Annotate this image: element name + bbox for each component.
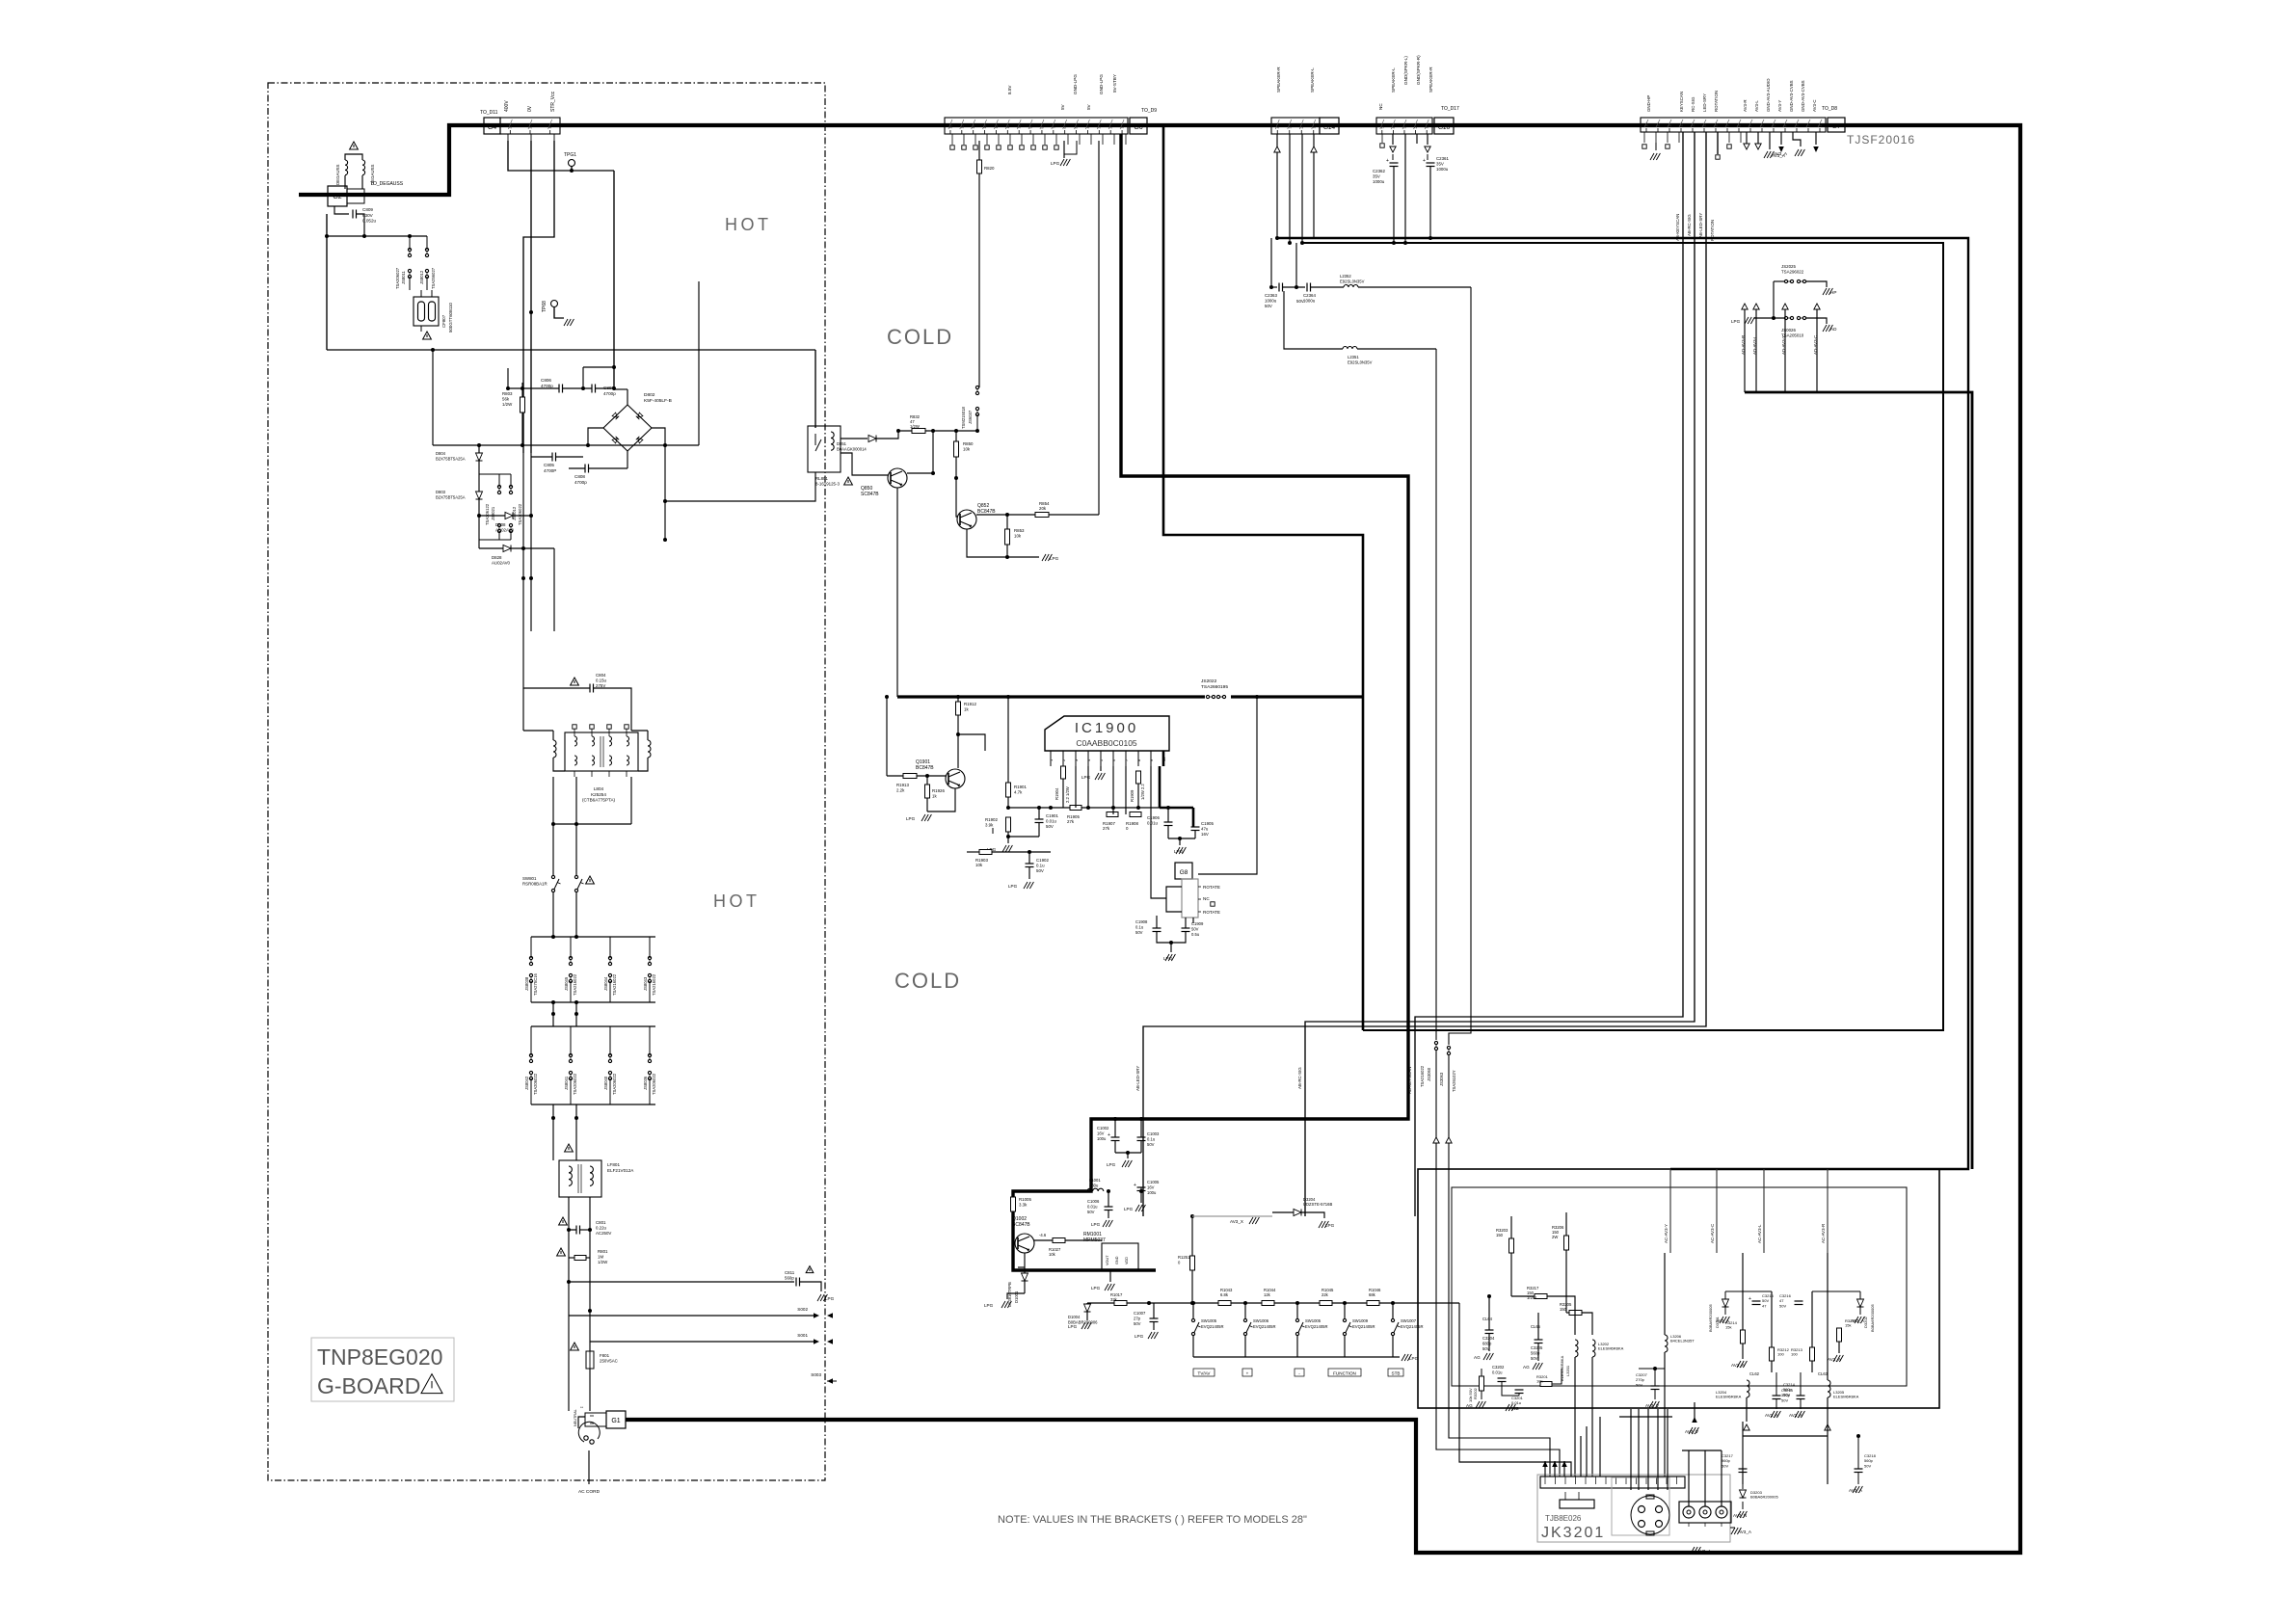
diode D3204 [1294, 1210, 1301, 1216]
svg-text:G4: G4 [488, 124, 496, 131]
svg-text:3: 3 [509, 127, 513, 129]
wire [1125, 766, 1127, 814]
svg-text:SW801: SW801 [522, 876, 537, 881]
svg-text:VOUT: VOUT [1106, 1255, 1109, 1265]
svg-text:C2361: C2361 [1436, 156, 1449, 161]
svg-text:AV3_A: AV3_A [1731, 1363, 1746, 1368]
svg-text:IC1900: IC1900 [1075, 720, 1138, 736]
IC1900 pins [1050, 751, 1052, 766]
svg-text:B0BA6R200005: B0BA6R200005 [1750, 1495, 1778, 1500]
svg-text:G6: G6 [1134, 124, 1142, 131]
wire [1827, 1397, 1829, 1422]
diode D3202 [1857, 1299, 1864, 1307]
wire Q1901 emitter [927, 788, 955, 811]
svg-text:150: 150 [1496, 1233, 1504, 1237]
svg-text:500GTT60B110: 500GTT60B110 [448, 303, 453, 333]
svg-text:LPG: LPG [906, 816, 916, 821]
svg-text:0.01u: 0.01u [1492, 1370, 1503, 1374]
diode D1004 [1084, 1304, 1091, 1312]
svg-text:JK3201: JK3201 [1541, 1525, 1605, 1541]
svg-text:47u: 47u [1201, 827, 1209, 832]
svg-text:VDD: VDD [1125, 1257, 1129, 1264]
svg-text:JS8012: JS8012 [419, 270, 424, 284]
wire AV3 signal bus [1745, 392, 1972, 1169]
svg-text:10k 50V: 10k 50V [1468, 1388, 1473, 1402]
svg-text:C806: C806 [541, 378, 551, 383]
wire [1565, 1250, 1567, 1313]
wire STR_Vcc feed [523, 141, 554, 453]
resistor R803 [521, 397, 525, 412]
svg-text:560p: 560p [785, 1276, 794, 1281]
svg-text:LPG: LPG [1731, 319, 1741, 324]
wire [664, 445, 666, 540]
wire AV3-X line [1192, 1215, 1272, 1217]
svg-text:LPG: LPG [1124, 1207, 1134, 1211]
switch SW1007 [1391, 1318, 1394, 1321]
line filter LF801 [559, 1160, 601, 1197]
svg-text:AV3_A: AV3_A [1774, 151, 1788, 156]
svg-text:AG: AG [1523, 1365, 1530, 1370]
svg-text:AU02AV0: AU02AV0 [492, 561, 511, 566]
jumper JS8012 [425, 248, 428, 251]
svg-text:27k: 27k [1067, 819, 1075, 824]
capacitor C806 [558, 385, 560, 393]
svg-text:EVQ21405R: EVQ21405R [1305, 1324, 1328, 1329]
svg-text:HOT: HOT [725, 215, 772, 234]
svg-text:TNP8EG020: TNP8EG020 [317, 1344, 442, 1370]
svg-text:AB-RC-SIG: AB-RC-SIG [1687, 214, 1692, 236]
svg-text:TSA205010: TSA205010 [1781, 333, 1804, 338]
diode D1001 LED [1022, 1273, 1028, 1281]
switch SW1005 [1191, 1318, 1194, 1321]
svg-text:50V: 50V [1783, 1392, 1790, 1397]
connector G7 [1641, 118, 1826, 132]
inductor L3206 [1665, 1335, 1668, 1352]
svg-text:G14: G14 [1323, 124, 1336, 131]
degauss coil 2 [362, 160, 365, 175]
wire pin10 thick [1159, 766, 1161, 808]
wire degauss return [326, 214, 328, 350]
wire [552, 892, 554, 937]
svg-text:0.1u: 0.1u [1036, 864, 1045, 868]
svg-text:EVQ21405R: EVQ21405R [1352, 1324, 1375, 1329]
svg-text:1000u: 1000u [1265, 299, 1277, 304]
svg-text:BC847B: BC847B [977, 509, 996, 515]
svg-text:15: 15 [1657, 123, 1661, 127]
svg-text:2W: 2W [1552, 1235, 1558, 1239]
svg-text:R1926: R1926 [932, 788, 945, 793]
svg-text:TSA216022: TSA216022 [612, 973, 617, 996]
svg-text:33k: 33k [1110, 1297, 1118, 1302]
svg-text:GND-LPG: GND-LPG [1099, 74, 1104, 94]
svg-text:L1001: L1001 [1089, 1178, 1101, 1183]
capacitor C1005 [1137, 1186, 1146, 1188]
svg-text:AC250V: AC250V [596, 1231, 611, 1236]
svg-text:C1901: C1901 [1046, 813, 1058, 818]
svg-text:C804: C804 [596, 673, 606, 678]
svg-text:4700p: 4700p [603, 391, 616, 396]
svg-text:JS8011: JS8011 [401, 270, 406, 284]
wire [522, 688, 524, 731]
JK3201 pin strip [1540, 1477, 1685, 1488]
svg-text:MPM5037: MPM5037 [1083, 1237, 1106, 1243]
wire remote line to switches [1149, 1302, 1192, 1304]
svg-text:AV3-R: AV3-R [1743, 99, 1748, 112]
wire [432, 350, 434, 445]
svg-text:ELESM6R8KA: ELESM6R8KA [1833, 1395, 1859, 1399]
wire [957, 715, 959, 768]
wire [478, 445, 480, 453]
svg-text:ROTATION: ROTATION [1710, 220, 1715, 241]
svg-text:AC-AV3-R: AC-AV3-R [1821, 1224, 1826, 1243]
fuse F801 [586, 1351, 594, 1369]
svg-text:16V: 16V [1201, 832, 1209, 837]
wire [589, 1197, 591, 1230]
wire [1049, 514, 1099, 516]
resistor R3206 [1564, 1236, 1569, 1250]
wire [1192, 918, 1194, 923]
svg-text:50V: 50V [1046, 824, 1054, 829]
wire [553, 823, 631, 825]
switch SW1006 [1243, 1318, 1246, 1321]
svg-text:HP: HP [1830, 290, 1836, 295]
resistor R3212 [1770, 1347, 1775, 1361]
svg-text:50V: 50V [1296, 299, 1304, 304]
svg-text:+: + [1386, 158, 1389, 164]
svg-text:LPG: LPG [1409, 1356, 1419, 1361]
svg-text:TJSF20016: TJSF20016 [1847, 133, 1915, 146]
diode D808 [505, 513, 513, 519]
svg-text:14: 14 [972, 125, 975, 129]
svg-text:4700P: 4700P [544, 468, 556, 473]
jumper JS8011 [408, 248, 411, 251]
G14 pin drops [1276, 134, 1278, 238]
inductor L3201 [1575, 1340, 1578, 1357]
wire [1827, 1422, 1829, 1484]
zener D803 [476, 492, 483, 499]
wire [568, 1316, 570, 1411]
warning triangle R801 [557, 1248, 566, 1256]
svg-text:3: 3 [1796, 125, 1800, 127]
wire [1075, 766, 1077, 808]
svg-text:4.7k: 4.7k [1014, 790, 1023, 795]
svg-text:B4CEL3N35T: B4CEL3N35T [1670, 1339, 1695, 1344]
svg-text:JS0026: JS0026 [1781, 328, 1796, 333]
capacitor C3215 [1752, 1300, 1761, 1302]
G16 pin drops [1381, 134, 1383, 143]
svg-text:RL801: RL801 [815, 476, 828, 481]
wire [1827, 1253, 1829, 1380]
resistor R1046 [1367, 1301, 1379, 1306]
wire [1289, 134, 1291, 243]
svg-text:R1909: R1909 [1130, 789, 1135, 802]
svg-text:2: 2 [529, 127, 533, 129]
svg-text:R1912: R1912 [964, 702, 976, 706]
svg-text:JS8043: JS8043 [643, 976, 648, 991]
svg-text:AV3_A: AV3_A [1697, 1549, 1712, 1554]
wire [1007, 556, 1039, 558]
wire jumper row 2 bottom [531, 1104, 655, 1105]
wire [575, 824, 577, 875]
svg-text:50V: 50V [1135, 930, 1143, 935]
wire [955, 457, 957, 478]
svg-text:RSR08BA1R: RSR08BA1R [522, 882, 547, 887]
svg-text:R1902: R1902 [985, 817, 998, 822]
svg-text:4700p: 4700p [541, 384, 553, 388]
wire Q850 emitter rail [896, 488, 898, 697]
svg-text:C1003: C1003 [1147, 1131, 1160, 1136]
svg-text:R820: R820 [984, 166, 995, 171]
wire [1857, 1436, 1859, 1469]
warning triangle degauss [350, 142, 359, 149]
svg-text:10k: 10k [1536, 1379, 1542, 1384]
degauss coil 1 [345, 160, 348, 175]
transistor Q1002 [1015, 1234, 1034, 1253]
svg-text:AV3_X: AV3_X [1230, 1219, 1243, 1224]
svg-text:JS6037: JS6037 [968, 410, 973, 424]
svg-text:50V: 50V [1781, 1397, 1788, 1402]
wire [992, 851, 1022, 853]
resistor R1908 [1130, 812, 1141, 817]
svg-text:B0AAGK000014: B0AAGK000014 [837, 446, 867, 451]
wire [1112, 766, 1114, 814]
svg-text:JS8044: JS8044 [603, 976, 608, 991]
svg-text:TSA206027: TSA206027 [395, 267, 400, 289]
wire [1284, 291, 1343, 349]
svg-text:C1905: C1905 [1201, 821, 1214, 826]
svg-text:8: 8 [1040, 127, 1044, 129]
capacitor C804 [589, 684, 591, 693]
svg-text:TO_DEGAUSS: TO_DEGAUSS [370, 181, 404, 187]
svg-text:G7: G7 [1832, 123, 1841, 130]
svg-text:SW1006: SW1006 [1253, 1318, 1269, 1323]
resistor R1906 pin4 stub [1087, 766, 1089, 808]
connector G4 [484, 118, 500, 134]
diode D851 [841, 438, 868, 439]
jumper JS8042 [529, 1053, 532, 1056]
svg-text:5V-STBY: 5V-STBY [1112, 74, 1117, 93]
svg-text:ROTATE: ROTATE [1203, 885, 1220, 890]
wire LED-SRY routing [1143, 132, 1706, 1216]
resistor R3201 [1540, 1382, 1552, 1387]
wire [1127, 1302, 1149, 1304]
svg-text:0.5u: 0.5u [1191, 932, 1200, 937]
wire [1115, 1152, 1141, 1154]
svg-text:AV3_A: AV3_A [1716, 1318, 1730, 1323]
svg-text:GND-HP: GND-HP [1646, 95, 1651, 112]
svg-text:COLD: COLD [887, 325, 953, 349]
svg-text:STR_Vcc: STR_Vcc [550, 91, 556, 112]
wire [1547, 1296, 1575, 1335]
connector G6 [945, 118, 1128, 134]
wire [1168, 838, 1195, 839]
wire [552, 1002, 554, 1026]
svg-text:S001: S001 [797, 1333, 808, 1338]
svg-text:TJB8E026: TJB8E026 [1545, 1514, 1582, 1523]
svg-text:CL64: CL64 [1482, 1317, 1493, 1321]
transformer L804 outer right coil [648, 740, 651, 758]
svg-text:R3202: R3202 [1473, 1387, 1478, 1399]
svg-text:2: 2 [1414, 127, 1418, 129]
wire JS2022 to routing loop [1231, 695, 1363, 698]
svg-text:S003: S003 [811, 1372, 821, 1377]
wire jumper row 2 top [531, 1025, 655, 1027]
wire [1510, 1253, 1512, 1296]
wire [1064, 141, 1077, 154]
svg-text:3.9k: 3.9k [985, 823, 994, 828]
svg-text:R1251: R1251 [1178, 1255, 1190, 1260]
svg-text:1: 1 [1121, 127, 1125, 129]
capacitor C1003 [1137, 1136, 1146, 1138]
svg-text:35V: 35V [1373, 174, 1380, 179]
svg-text:**: ** [580, 1405, 584, 1410]
warning triangle CF807 [423, 332, 432, 339]
svg-text:100: 100 [1791, 1352, 1798, 1357]
svg-text:3: 3 [1098, 127, 1102, 129]
svg-text:16: 16 [948, 125, 952, 129]
svg-text:D1001: D1001 [1014, 1290, 1019, 1303]
wire [978, 173, 980, 387]
svg-text:D803: D803 [436, 490, 446, 494]
inductor L3205 [1828, 1380, 1830, 1397]
warning triangle C804 [571, 678, 579, 685]
wire [1150, 766, 1152, 781]
svg-text:1000u: 1000u [1303, 299, 1316, 304]
wire ROTATION stub [1717, 132, 1719, 154]
svg-text:68k: 68k [1369, 1292, 1376, 1297]
resistor R1045 [1320, 1301, 1332, 1306]
svg-text:0.15u: 0.15u [596, 678, 607, 683]
inductor L3204 [1747, 1380, 1749, 1397]
svg-text:AV3_A: AV3_A [1765, 1413, 1779, 1418]
svg-text:NEUTRAL: NEUTRAL [574, 1409, 577, 1426]
wire [1481, 1369, 1482, 1376]
svg-text:B0BA6R200005: B0BA6R200005 [1708, 1304, 1713, 1332]
wire [589, 1258, 591, 1282]
capacitor C807 [591, 385, 593, 393]
svg-text:1/2W: 1/2W [598, 1260, 608, 1264]
wire [1393, 167, 1395, 244]
wire speaker/AV3 routing loop [1277, 238, 1968, 1169]
wire [1775, 1372, 1777, 1396]
svg-text:LPG: LPG [1081, 775, 1091, 780]
svg-text:AG: AG [1474, 1355, 1481, 1360]
svg-text:10: 10 [1018, 125, 1022, 129]
resistor R1043 [1218, 1301, 1231, 1306]
svg-text:16V: 16V [1097, 1131, 1105, 1135]
svg-text:GND(SPKR-R): GND(SPKR-R) [1416, 55, 1421, 85]
svg-text:C808: C808 [574, 474, 585, 479]
wire [575, 1104, 577, 1160]
svg-text:AC-AV3-Y: AC-AV3-Y [1664, 1224, 1669, 1243]
resistor R1904 [1061, 766, 1066, 779]
wire JS3060 to JK3201 [1436, 1051, 1560, 1477]
wire [507, 368, 509, 388]
svg-text:R1901: R1901 [1014, 785, 1027, 789]
svg-text:AV3_A: AV3_A [1789, 1413, 1803, 1418]
jumper JS8045 [569, 956, 572, 959]
svg-text:G-BOARD: G-BOARD [317, 1373, 420, 1398]
wire relay contact node [898, 430, 977, 432]
wire JS3060 net [1435, 349, 1437, 1040]
svg-text:2: 2 [1807, 125, 1811, 127]
svg-text:JS8021: JS8021 [491, 506, 495, 520]
wire Q852 base [956, 478, 957, 517]
svg-text:2: 2 [1109, 127, 1113, 129]
wire [1746, 1397, 1748, 1422]
AV3 block inner box [1452, 1187, 1907, 1386]
svg-text:TO_D8: TO_D8 [1822, 106, 1837, 112]
wire [1358, 286, 1471, 288]
capacitor C1006 [1105, 1206, 1113, 1208]
svg-text:ROTATE: ROTATE [1203, 910, 1220, 915]
svg-text:L3201: L3201 [1565, 1365, 1570, 1376]
svg-text:F801: F801 [600, 1353, 610, 1358]
svg-text:100u: 100u [1147, 1190, 1157, 1195]
svg-text:ELESM6R8KA: ELESM6R8KA [1598, 1346, 1624, 1351]
svg-text:DEGAUSS: DEGAUSS [335, 164, 340, 185]
wire [1413, 1302, 1459, 1304]
svg-text:1: 1 [1426, 127, 1429, 129]
wire 5V vertical from G6 [1098, 141, 1100, 515]
svg-text:1000u: 1000u [1373, 179, 1385, 184]
svg-text:6: 6 [1063, 127, 1067, 129]
svg-text:4: 4 [1392, 127, 1396, 129]
wire [1007, 697, 1009, 783]
wire [1179, 838, 1181, 845]
wire [1185, 918, 1187, 928]
connector G8 [1175, 863, 1192, 879]
svg-text:56k: 56k [502, 397, 510, 402]
svg-text:C801: C801 [596, 1220, 606, 1225]
svg-text:6: 6 [1761, 125, 1765, 127]
wire S002 line [569, 1315, 815, 1317]
svg-text:0.01u: 0.01u [1147, 821, 1159, 826]
ground pin5 [1100, 766, 1102, 771]
svg-text:4: 4 [1276, 127, 1280, 129]
svg-text:BC847B: BC847B [1012, 1222, 1030, 1228]
svg-text:C2362: C2362 [1373, 169, 1385, 173]
wire [1416, 134, 1418, 144]
wire [1812, 1290, 1860, 1292]
wire cap row [508, 387, 559, 389]
svg-text:TSA216022: TSA216022 [652, 973, 656, 996]
wire under-IC row [1008, 807, 1160, 809]
svg-text:JS2022: JS2022 [1201, 678, 1217, 684]
svg-text:0.1u: 0.1u [1135, 924, 1144, 929]
svg-text:D808: D808 [495, 522, 506, 527]
resistor R832 [912, 429, 925, 434]
wire 9V rail to JS2022 [897, 695, 1205, 698]
resistor R1027 [1053, 1238, 1065, 1243]
svg-text:4700p: 4700p [574, 480, 587, 485]
wire [1109, 1270, 1111, 1282]
diode D3203 [1740, 1490, 1747, 1498]
wire [1838, 1342, 1840, 1353]
svg-text:E92SL0N35V: E92SL0N35V [1340, 279, 1365, 283]
svg-text:KEYSCAN: KEYSCAN [1679, 92, 1684, 112]
capacitor C805 [551, 453, 553, 462]
wire [665, 472, 815, 501]
svg-text:SW1007: SW1007 [1401, 1318, 1417, 1323]
svg-text:TSA206022: TSA206022 [533, 1073, 538, 1095]
svg-text:R1913: R1913 [896, 783, 909, 787]
G7 pin stubs [1643, 132, 1645, 143]
svg-text:0.01u: 0.01u [1046, 819, 1057, 824]
jumper JS8038 [529, 956, 532, 959]
wire [1008, 836, 1039, 838]
HOT isolation border (dash-dot box) [268, 83, 825, 1480]
